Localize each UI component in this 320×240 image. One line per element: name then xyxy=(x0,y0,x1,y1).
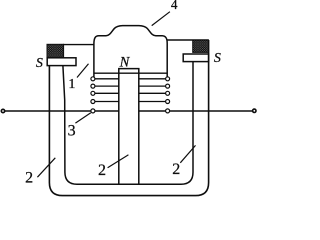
wire: coil turn row 4 right xyxy=(139,101,168,103)
svg-text:N: N xyxy=(119,55,131,71)
coil 3: right turn circle row 4 xyxy=(166,100,170,104)
coil 3: left turn circle row 4 xyxy=(91,100,95,104)
magnet S left (hatched block) xyxy=(47,44,64,58)
svg-text:2: 2 xyxy=(98,162,106,179)
coil 3: left turn circle row 2 xyxy=(91,84,95,88)
svg-text:S: S xyxy=(36,56,43,71)
wire: coil turn row 3 left xyxy=(93,92,119,94)
svg-text:3: 3 xyxy=(68,122,76,139)
wire: coil turn row 3 right xyxy=(139,92,168,94)
wire: coil turn row 4 left xyxy=(93,101,119,103)
svg-text:4: 4 xyxy=(171,0,178,12)
wire: coil turn row 2 left xyxy=(93,85,119,87)
svg-text:2: 2 xyxy=(25,170,33,187)
leader line for label 1 xyxy=(77,64,89,78)
wire: coil lead from left terminal to right terminal (bottom coil turn) xyxy=(5,110,253,112)
terminal: right binding post xyxy=(253,109,256,112)
coil 3: right turn circle row 5 xyxy=(166,109,170,113)
svg-text:2: 2 xyxy=(172,161,180,178)
leader line for label 4 xyxy=(152,12,170,26)
wire: coil turn row 2 right xyxy=(139,85,168,87)
pole piece bar left (1) xyxy=(47,58,76,66)
wire: coil turn row 1 right xyxy=(139,78,168,80)
svg-text:S: S xyxy=(214,51,221,66)
wire: coil turn row 1 left xyxy=(93,78,119,80)
yoke 2: inner channel (U-shaped pole shoe) xyxy=(63,62,193,185)
wire: top frame line left (block to dome) xyxy=(63,44,94,46)
terminal: left binding post xyxy=(1,109,4,112)
coil 3: right turn circle row 3 xyxy=(166,91,170,95)
leader line for label 3 xyxy=(75,113,90,123)
pole piece bar right xyxy=(183,54,208,62)
coil 3: right turn circle row 1 xyxy=(166,77,170,81)
magnet S right (hatched block) xyxy=(193,40,209,52)
core (central pole, N) xyxy=(119,69,139,185)
wire: top frame line right (dome to outer shell) xyxy=(167,39,208,41)
diaphragm 4: dome outline xyxy=(94,26,167,78)
coil 3: right turn circle row 2 xyxy=(166,84,170,88)
wire: diaphragm seat line (bottom edge of dome 4) xyxy=(94,72,167,74)
leader line for label 2 bottom-left xyxy=(37,158,55,177)
leader line for label 2 bottom-middle xyxy=(108,155,129,168)
coil 3: left turn circle row 1 xyxy=(91,77,95,81)
leader line for label 2 bottom-right xyxy=(180,145,195,162)
yoke 2: outer U-shaped shell xyxy=(49,40,208,196)
coil 3: left turn circle row 5 xyxy=(91,109,95,113)
svg-text:1: 1 xyxy=(68,77,75,92)
coil 3: left turn circle row 3 xyxy=(91,91,95,95)
